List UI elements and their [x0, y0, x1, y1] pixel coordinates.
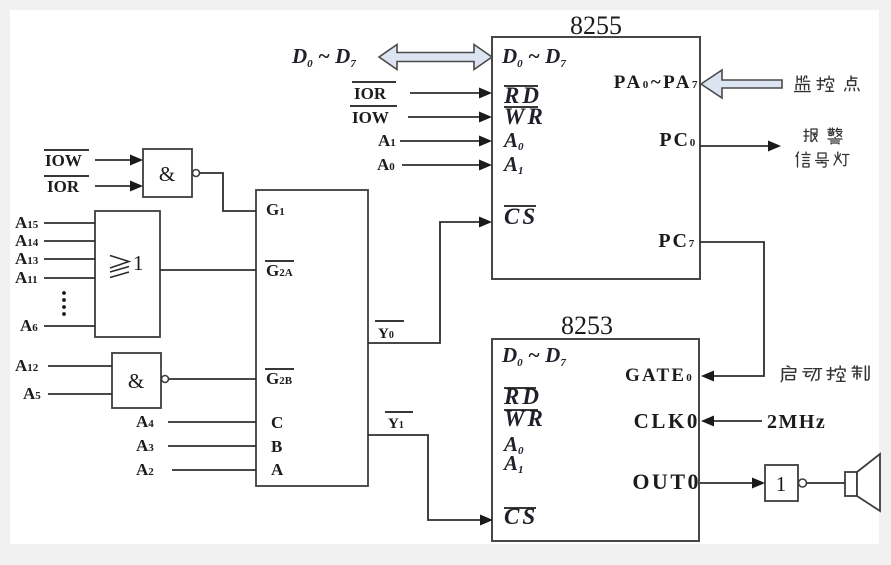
- wire A4 to decoder C: [168, 421, 256, 423]
- svg-text:GATE0: GATE0: [625, 365, 694, 386]
- arrowhead into 8253 CS: [480, 515, 493, 526]
- arrowhead into 8255 CS: [479, 217, 492, 228]
- net Y0 to 8255 CS: [368, 222, 479, 343]
- wire A2 to decoder A: [172, 469, 256, 471]
- label 2MHz: [767, 411, 826, 433]
- 8253 pin WR with overline: [504, 406, 546, 431]
- label A4: [136, 412, 154, 431]
- label A0 mid: [377, 155, 395, 174]
- net PC7 to GATE0: [700, 242, 764, 376]
- wire A15: [44, 222, 95, 224]
- 8253 pin GATE0: [625, 365, 694, 386]
- wire A11: [44, 277, 95, 279]
- annotation qidongkongzhi (start control): [781, 366, 869, 382]
- label A6: [20, 316, 38, 335]
- 8253 pin OUT0: [632, 469, 701, 494]
- label IOR mid with overline: [352, 82, 396, 103]
- wire A12: [48, 365, 112, 367]
- wire A6: [44, 325, 95, 327]
- label D0~D7 top: [291, 44, 356, 70]
- speaker LS1: [845, 454, 880, 511]
- wire G2 output to decoder G2A pin: [160, 269, 256, 271]
- arrowhead into 8255 WR: [479, 112, 492, 123]
- 8255 pin PC7: [658, 230, 696, 252]
- 8253 pin D0~D7: [501, 343, 566, 369]
- decoder output label Y0 with overline: [375, 321, 404, 342]
- wire IOR to 8255 RD: [410, 92, 479, 94]
- svg-text:2MHz: 2MHz: [767, 411, 826, 433]
- 8253 pin A1: [502, 451, 524, 476]
- svg-text:8255: 8255: [570, 11, 622, 40]
- wire A5: [48, 393, 112, 395]
- label A13: [15, 249, 39, 268]
- svg-text:B: B: [271, 437, 282, 456]
- svg-text:D0 ~ D7: D0 ~ D7: [291, 44, 356, 70]
- 8255 pin WR with overline: [504, 104, 546, 129]
- wire A3 to decoder B: [168, 445, 256, 447]
- label A5: [23, 384, 41, 403]
- IC U2 8253 body: [492, 339, 699, 541]
- wire IOW to 8255 WR: [408, 116, 479, 118]
- ellipsis dots: [62, 291, 66, 316]
- decoder pin G1: [266, 200, 285, 219]
- wire A0 to 8255 A1: [402, 164, 479, 166]
- svg-text:1: 1: [133, 251, 144, 275]
- bus arrow into PA0-PA7: [701, 70, 782, 98]
- wire A14: [44, 240, 95, 242]
- decoder pin B: [271, 437, 282, 456]
- decoder output label Y1 with overline: [385, 412, 413, 432]
- arrowhead PC0 out: [768, 141, 781, 152]
- wire IOR to G1: [95, 185, 131, 187]
- 8253 pin A0: [502, 432, 524, 457]
- decoder pin C: [271, 413, 283, 432]
- svg-text:D0 ~ D7: D0 ~ D7: [501, 44, 566, 70]
- bus arrow D0-D7 bidirectional: [379, 45, 492, 70]
- annotation baojing (alarm): [804, 128, 842, 144]
- svg-text:8253: 8253: [561, 311, 613, 340]
- svg-text:IOW: IOW: [352, 108, 389, 127]
- wire inverter to speaker: [807, 482, 846, 484]
- arrowhead into 8255 A0: [479, 136, 492, 147]
- arrowhead into G1 pin IOR: [130, 181, 143, 192]
- label IOW mid with overline: [350, 106, 397, 127]
- annotation jiankongdian (monitor point): [795, 76, 860, 92]
- wire OUT0 to inverter: [700, 482, 752, 484]
- arrowhead into 8255 RD: [479, 88, 492, 99]
- 8255 pin PC0: [659, 129, 697, 151]
- svg-text:CS: CS: [504, 204, 538, 229]
- svg-text:IOR: IOR: [47, 177, 80, 196]
- 8255 pin A0: [502, 128, 524, 153]
- decoder pin G2B with overline: [265, 369, 294, 388]
- svg-text:IOR: IOR: [354, 84, 387, 103]
- arrowhead into 8255 A1: [479, 160, 492, 171]
- label A1 mid: [378, 131, 396, 150]
- label A14: [15, 231, 39, 250]
- net Y1 to 8253 CS: [368, 435, 480, 520]
- arrowhead into inverter: [752, 478, 765, 489]
- arrowhead into CLK0: [701, 416, 714, 427]
- 8253 pin RD with overline: [503, 384, 542, 409]
- svg-text:PA0~PA7: PA0~PA7: [614, 72, 700, 93]
- wire A13: [44, 258, 95, 260]
- 8253 pin CLK0: [634, 409, 700, 433]
- label A3: [136, 436, 154, 455]
- svg-text:A: A: [271, 460, 284, 479]
- annotation xinhaodeng (signal light): [796, 152, 849, 167]
- wire A1 to 8255 A0: [400, 140, 479, 142]
- svg-text:&: &: [128, 369, 144, 393]
- wire PC0 output: [700, 145, 768, 147]
- svg-text:&: &: [159, 162, 175, 186]
- arrowhead into G1 pin IOW: [130, 155, 143, 166]
- label IOW left with overline: [44, 150, 89, 170]
- OR gate G2 body: [95, 211, 160, 337]
- decoder pin G2A with overline: [265, 261, 294, 280]
- 8255 pin A1: [502, 152, 524, 177]
- NAND gate G1 output bubble: [193, 170, 200, 177]
- arrowhead into GATE0: [701, 371, 714, 382]
- svg-text:1: 1: [776, 472, 787, 496]
- wire G1 output to decoder G1 pin: [200, 173, 257, 211]
- wire 2MHz to CLK0: [714, 420, 762, 422]
- NAND gate G1 body: [143, 149, 192, 197]
- OR gate G2 label: [110, 251, 144, 278]
- AND gate G3 output bubble: [162, 376, 169, 383]
- wire G3 output to decoder G2B pin: [169, 378, 257, 380]
- label A11: [15, 268, 38, 287]
- svg-text:OUT0: OUT0: [632, 469, 701, 494]
- inverter G4 body: [765, 465, 798, 501]
- 8255 pin D0~D7: [501, 44, 566, 70]
- 8255 pin CS with overline: [504, 204, 538, 229]
- label A2: [136, 460, 154, 479]
- decoder U3 74LS138 body: [256, 190, 368, 486]
- 8253 pin CS with overline: [504, 504, 538, 529]
- AND gate G3 body: [112, 353, 161, 408]
- svg-text:D0 ~ D7: D0 ~ D7: [501, 343, 566, 369]
- inverter G4 output bubble: [799, 479, 807, 487]
- label IOR left with overline: [44, 176, 89, 196]
- svg-text:CLK0: CLK0: [634, 409, 700, 433]
- label A12: [15, 356, 39, 375]
- 8255 pin PA0~PA7: [614, 72, 700, 93]
- IC U1 8255 body: [492, 37, 700, 279]
- svg-text:C: C: [271, 413, 283, 432]
- label A15: [15, 213, 39, 232]
- wire IOW to G1: [95, 159, 131, 161]
- 8255 pin RD with overline: [503, 83, 542, 108]
- decoder pin A: [271, 460, 284, 479]
- svg-text:IOW: IOW: [45, 151, 82, 170]
